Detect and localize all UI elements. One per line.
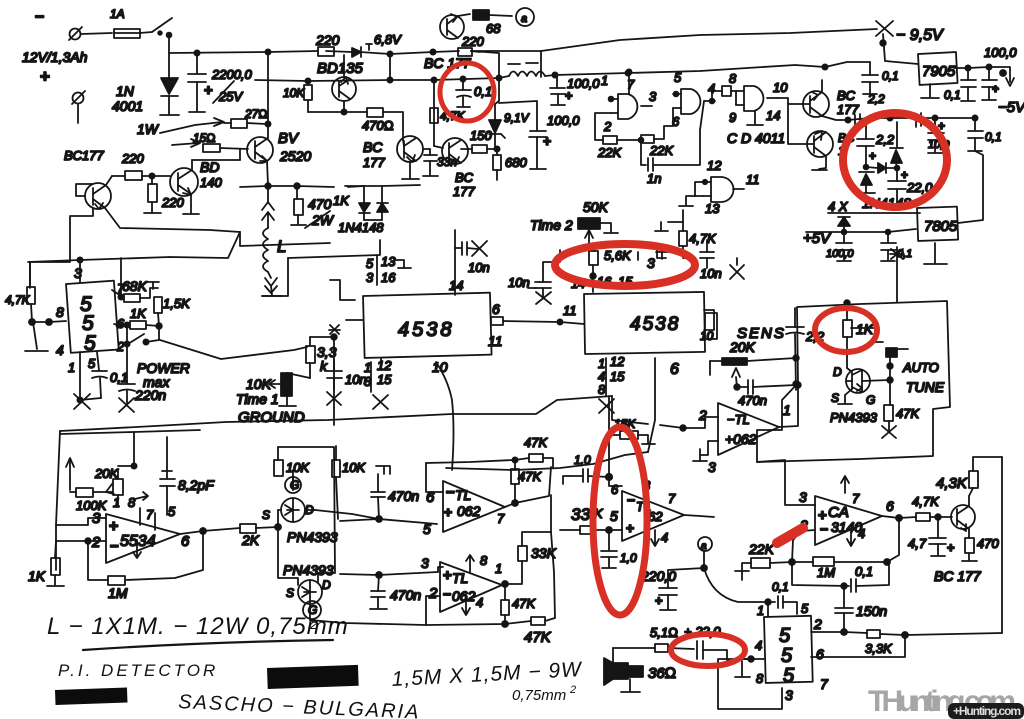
svg-text:PN4393: PN4393 — [287, 529, 338, 545]
svg-text:+: + — [992, 82, 999, 96]
svg-text:+: + — [109, 518, 118, 535]
resistor 27R — [224, 52, 271, 128]
nand gate U1d — [679, 158, 760, 216]
svg-text:4538: 4538 — [630, 314, 680, 335]
svg-text:1,0: 1,0 — [574, 453, 591, 467]
transistor BC177 mid1 — [363, 136, 423, 179]
svg-text:3: 3 — [649, 89, 657, 104]
svg-text:22K: 22K — [748, 541, 775, 557]
X mark -9,5V — [876, 21, 944, 64]
svg-text:47K: 47K — [524, 629, 552, 646]
svg-text:1: 1 — [757, 603, 764, 618]
svg-text:1M: 1M — [108, 585, 128, 601]
IC 555 #2 — [755, 601, 829, 703]
svg-text:4: 4 — [476, 595, 483, 610]
svg-text:5: 5 — [423, 521, 431, 537]
svg-text:5: 5 — [366, 256, 374, 271]
svg-text:BC: BC — [455, 170, 474, 185]
resistor 150 — [461, 128, 500, 153]
wire 5534 out — [180, 528, 240, 534]
svg-text:−: − — [627, 492, 635, 508]
svg-text:6: 6 — [492, 301, 500, 317]
svg-text:−: − — [35, 9, 44, 26]
svg-text:100,0: 100,0 — [547, 113, 580, 128]
svg-text:BC: BC — [837, 88, 856, 103]
transistor BC177 right2 — [788, 104, 855, 170]
svg-text:Time 2: Time 2 — [530, 217, 573, 233]
wire pin6 to pin11 — [503, 303, 584, 325]
svg-text:10: 10 — [700, 329, 714, 343]
battery label 12V/1,3Ah — [22, 49, 88, 86]
svg-text:680: 680 — [505, 155, 527, 170]
resistor 680 — [493, 149, 527, 180]
capacitor 10n mid — [508, 250, 560, 304]
resistor 1M b — [792, 557, 890, 580]
svg-text:BV: BV — [278, 130, 300, 147]
svg-text:3: 3 — [647, 255, 655, 271]
svg-text:68K: 68K — [122, 278, 148, 294]
svg-text:13: 13 — [381, 254, 396, 269]
wire node row y120 — [848, 115, 978, 120]
resistor 1,5K — [121, 258, 191, 329]
svg-text:12V/1,3Ah: 12V/1,3Ah — [22, 49, 88, 65]
svg-text:−: − — [820, 521, 828, 537]
svg-text:100,0: 100,0 — [826, 248, 854, 260]
red annotation D: ellipse around 1K — [815, 308, 877, 352]
svg-text:1: 1 — [601, 73, 608, 88]
svg-text:1: 1 — [783, 402, 791, 418]
resistor 22K b — [735, 541, 792, 580]
resistor 15K top — [609, 396, 655, 477]
red annotation F: ellipse around 22,0 — [671, 634, 745, 666]
svg-text:2: 2 — [116, 339, 125, 354]
wire row to pin5 — [340, 519, 437, 537]
potentiometer 20K sens — [710, 358, 796, 390]
svg-text:0,1: 0,1 — [882, 69, 899, 83]
svg-text:D: D — [833, 365, 842, 379]
resistor 470R — [362, 108, 403, 140]
svg-text:470: 470 — [308, 196, 332, 212]
svg-text:TL: TL — [452, 570, 468, 586]
svg-text:3: 3 — [708, 459, 716, 475]
bracket 3 gnd in red ellipse — [638, 250, 669, 271]
svg-text:2W: 2W — [311, 212, 335, 228]
fuse 1A — [110, 7, 152, 38]
svg-text:5: 5 — [610, 508, 618, 524]
resistor 68 — [473, 10, 512, 36]
svg-text:PN4393: PN4393 — [830, 410, 878, 425]
wire 555 to mid — [160, 340, 307, 359]
svg-text:Time 1: Time 1 — [236, 391, 279, 407]
capacitor 100,0 first — [550, 76, 600, 105]
resistor 33K input — [560, 505, 622, 534]
svg-text:BC177: BC177 — [64, 148, 105, 163]
svg-text:5: 5 — [779, 625, 791, 647]
long wire mid A — [60, 396, 612, 431]
resistor 1K mid — [114, 306, 159, 329]
svg-text:36Ω: 36Ω — [648, 665, 676, 682]
svg-text:2520: 2520 — [279, 148, 311, 164]
switch — [152, 18, 172, 37]
svg-text:50K: 50K — [583, 199, 609, 215]
svg-text:− 9,5V: − 9,5V — [896, 27, 944, 44]
svg-text:AUTO: AUTO — [902, 360, 939, 375]
svg-text:+5V: +5V — [803, 230, 832, 247]
speaker 36R — [604, 648, 676, 692]
wire a2 to 555 — [704, 568, 771, 605]
svg-text:220: 220 — [121, 151, 144, 166]
svg-text:4,7K: 4,7K — [689, 231, 717, 246]
resistor 220 vertical — [144, 176, 184, 213]
svg-text:0,1: 0,1 — [985, 130, 1002, 144]
svg-text:4 X: 4 X — [828, 199, 849, 214]
op-amp TL62 — [609, 477, 714, 546]
battery plus terminal — [72, 91, 85, 123]
transistor BD135 — [317, 55, 364, 112]
svg-text:470: 470 — [977, 536, 999, 551]
svg-text:2,2: 2,2 — [875, 132, 895, 147]
wire output 6 — [882, 515, 916, 562]
svg-text:1,5K: 1,5K — [163, 296, 191, 311]
svg-text:−: − — [446, 484, 455, 501]
svg-text:68: 68 — [486, 21, 501, 36]
svg-text:4538: 4538 — [398, 319, 455, 341]
svg-text:6: 6 — [181, 533, 190, 550]
svg-text:10K: 10K — [342, 460, 366, 475]
svg-text:2200,0: 2200,0 — [211, 67, 253, 82]
svg-text:062: 062 — [457, 503, 481, 519]
transistor PN4393 b — [278, 527, 426, 625]
IC 4538 #1 — [363, 248, 503, 409]
svg-text:S: S — [262, 508, 270, 522]
svg-text:100,0: 100,0 — [567, 76, 600, 91]
resistor 22K b — [641, 108, 674, 158]
wire pn4393 row — [315, 510, 379, 519]
wire top long to -9,5V — [471, 29, 877, 77]
resistor 220 (BC177 top) — [424, 34, 484, 71]
diode 6,8V zener — [352, 32, 402, 57]
svg-text:470n: 470n — [738, 393, 767, 408]
capacitor 2,2 sens — [786, 308, 825, 390]
wire 4538-1 left pins — [330, 280, 363, 320]
op-amp TL062 #2 — [426, 553, 508, 625]
svg-text:+: + — [443, 567, 452, 584]
svg-text:4: 4 — [661, 530, 668, 545]
svg-text:0,1: 0,1 — [474, 84, 492, 99]
svg-text:10K: 10K — [246, 376, 272, 392]
star node — [844, 247, 904, 306]
wire pin3 — [757, 460, 815, 505]
svg-text:7805: 7805 — [924, 218, 958, 235]
red annotation B: big circle top right — [843, 113, 947, 207]
resistor 2K — [240, 524, 281, 548]
label 2,2 top — [867, 92, 885, 106]
red annotation E: tall ellipse — [593, 427, 647, 615]
svg-text:11: 11 — [563, 303, 577, 318]
svg-text:15: 15 — [610, 369, 625, 384]
svg-text:16: 16 — [381, 270, 396, 285]
svg-text:−TL: −TL — [727, 412, 750, 427]
diode zener 9,1V — [489, 101, 530, 150]
op-amp 5534 — [91, 492, 190, 563]
svg-text:47K: 47K — [512, 596, 536, 611]
svg-text:47K: 47K — [518, 469, 542, 484]
svg-text:11: 11 — [746, 172, 760, 187]
svg-text:33: 33 — [571, 505, 590, 524]
wire bus y72 gates top — [626, 64, 827, 74]
svg-text:TUNE: TUNE — [906, 379, 945, 395]
svg-text:6: 6 — [611, 482, 619, 497]
svg-text:47K: 47K — [896, 406, 920, 421]
capacitor 100,0 out b — [982, 45, 1024, 116]
svg-text:5: 5 — [801, 601, 809, 616]
transistor BC177 right1 — [778, 80, 859, 117]
capacitor 22,0 in red circle — [888, 168, 933, 204]
resistor 10K wireA — [332, 446, 366, 519]
svg-text:10K: 10K — [283, 86, 305, 100]
wire bottom row + resistor 47K c — [426, 532, 555, 646]
svg-text:8: 8 — [128, 495, 136, 510]
svg-text:10K: 10K — [286, 460, 310, 475]
op-amp TL062 #1 — [426, 460, 551, 532]
capacitor 1n — [641, 101, 704, 186]
svg-text:14: 14 — [766, 108, 780, 123]
svg-text:BC 177: BC 177 — [934, 568, 982, 584]
resistor 4,7K vertical — [430, 108, 466, 123]
svg-text:TL: TL — [455, 487, 471, 503]
svg-text:7905: 7905 — [922, 63, 956, 80]
svg-text:1M: 1M — [817, 565, 835, 580]
svg-text:8: 8 — [756, 671, 764, 686]
indicator lamp a — [516, 8, 534, 26]
svg-text:+: + — [204, 82, 213, 99]
label 1W with arrows — [137, 118, 224, 147]
transistor BC177 out — [934, 496, 982, 584]
label SENS — [729, 325, 786, 355]
switch auto tune — [851, 328, 945, 405]
wire pin10 sweep — [436, 362, 454, 470]
svg-text:0,1: 0,1 — [772, 580, 789, 594]
svg-text:4: 4 — [755, 638, 762, 653]
svg-text:10n: 10n — [345, 372, 367, 387]
svg-text:+: + — [444, 504, 452, 520]
resistor 1M feedback — [88, 532, 203, 601]
svg-text:6: 6 — [816, 646, 824, 662]
svg-text:2: 2 — [603, 119, 612, 134]
svg-text:L − 1X1M. − 12W 0,75mm: L − 1X1M. − 12W 0,75mm — [47, 613, 349, 640]
svg-text:5: 5 — [783, 665, 795, 687]
capacitor 4,7 — [908, 517, 955, 556]
wire pin6 row — [811, 635, 905, 657]
wire BC177 collector to left frame — [30, 184, 93, 288]
transistor BV2520 — [247, 124, 311, 185]
node bus y185 left — [105, 208, 330, 246]
svg-text:25V: 25V — [218, 89, 243, 104]
svg-text:9: 9 — [729, 110, 736, 125]
svg-text:13: 13 — [705, 201, 720, 216]
capacitor 10n top — [455, 230, 490, 275]
svg-text:5: 5 — [168, 504, 176, 519]
svg-text:5: 5 — [84, 332, 96, 355]
svg-text:4001: 4001 — [112, 98, 143, 114]
coil L — [262, 183, 300, 296]
capacitor 10n right — [700, 240, 744, 281]
svg-text:BC: BC — [363, 139, 383, 155]
wire 5534 inputs — [56, 518, 106, 544]
wire pin8 pin3 loop — [718, 659, 782, 709]
svg-text:L: L — [277, 237, 286, 256]
svg-text:177: 177 — [837, 102, 859, 117]
svg-text:4,3K: 4,3K — [936, 475, 968, 492]
svg-text:1n: 1n — [647, 171, 661, 186]
svg-text:1N: 1N — [116, 83, 135, 99]
svg-text:150n: 150n — [856, 603, 887, 619]
capacitor 0,1 (red circled) — [456, 76, 492, 107]
resistor 47K b — [501, 584, 536, 627]
resistor 4,7K out — [912, 494, 952, 521]
wire pin2 — [789, 530, 815, 565]
svg-text:5: 5 — [674, 70, 682, 85]
resistor 470 out — [962, 536, 999, 561]
capacitor 0,1 right — [968, 118, 1002, 151]
inductor choke — [499, 63, 825, 78]
resistor 1K (red circled) — [843, 303, 874, 368]
svg-text:10n: 10n — [700, 266, 722, 281]
potentiometer 10K Time1 — [236, 373, 305, 426]
svg-text:470n: 470n — [388, 488, 419, 504]
capacitor 0,1 pin1 — [768, 580, 797, 617]
svg-text:1K: 1K — [28, 568, 46, 584]
capacitor 220n — [119, 344, 166, 412]
svg-text:220: 220 — [161, 195, 184, 210]
switch POWER max — [124, 325, 189, 390]
red annotation C: ellipse around 5,6K — [555, 244, 695, 286]
svg-text:S: S — [286, 586, 294, 600]
capacitor 0,1 fb — [792, 562, 889, 592]
svg-text:+: + — [626, 520, 634, 536]
resistor 1K bottom left — [28, 541, 64, 586]
svg-text:G: G — [866, 393, 875, 407]
resistor 15R — [193, 131, 248, 152]
svg-text:1,0: 1,0 — [620, 551, 637, 565]
capacitor 470n #1 — [371, 466, 419, 522]
regulator 7805 — [888, 151, 983, 264]
battery minus terminal — [35, 9, 112, 40]
svg-text:33K: 33K — [531, 545, 557, 561]
wire y186 row — [240, 185, 420, 187]
svg-text:062: 062 — [452, 588, 476, 604]
svg-text:220: 220 — [461, 34, 484, 49]
svg-text:470n: 470n — [390, 587, 421, 603]
transistor BC177 left — [64, 148, 111, 209]
svg-text:12: 12 — [707, 158, 722, 173]
svg-text:BD135: BD135 — [317, 60, 364, 77]
long wire mid B — [446, 452, 648, 470]
wire emitter row y112 — [308, 109, 367, 114]
capacitor 2,2 in red circle — [855, 113, 921, 166]
svg-text:D: D — [322, 578, 331, 592]
wire base bus y80 — [255, 51, 502, 101]
svg-text:P.I. DETECTOR: P.I. DETECTOR — [58, 661, 218, 680]
svg-text:6: 6 — [670, 361, 679, 378]
svg-text:2K: 2K — [241, 532, 260, 548]
svg-text:7: 7 — [852, 491, 860, 506]
capacitor 100,0 second — [499, 101, 580, 169]
regulator 7905 — [918, 52, 968, 102]
black redaction bar left — [55, 687, 127, 705]
resistor 100K — [70, 488, 118, 513]
svg-text:177: 177 — [453, 184, 475, 199]
capacitor 33n — [423, 149, 457, 176]
svg-text:GROUND: GROUND — [238, 409, 305, 426]
svg-text:10: 10 — [773, 80, 788, 95]
capacitor 0,1 +5V — [881, 232, 912, 261]
svg-text:220n: 220n — [134, 387, 166, 403]
resistor 10K vertical — [283, 78, 312, 112]
nand gate U1a — [601, 72, 657, 134]
transistor PN4393 a — [262, 470, 338, 545]
svg-text:6,8V: 6,8V — [374, 32, 402, 47]
svg-text:8: 8 — [56, 304, 64, 320]
svg-text:15: 15 — [377, 372, 392, 387]
svg-text:10n: 10n — [468, 260, 490, 275]
svg-text:2,2: 2,2 — [867, 92, 885, 106]
svg-text:+Hunting.com: +Hunting.com — [953, 704, 1021, 718]
svg-text:+: + — [947, 540, 955, 555]
capacitor 8,2pF — [160, 470, 215, 515]
svg-text:22K: 22K — [597, 145, 622, 160]
wire top bus — [169, 35, 480, 57]
capacitor 0,1 pin5 — [74, 352, 128, 409]
op-amp CA3140 — [799, 476, 894, 546]
transistor PN4393 jfet — [830, 365, 893, 425]
nand gate U1c — [712, 71, 788, 125]
svg-text:2: 2 — [309, 616, 318, 632]
nand gate U1b — [672, 70, 715, 129]
svg-text:G: G — [290, 478, 299, 492]
label 4X 1N4148 — [828, 195, 920, 214]
svg-text:47K: 47K — [524, 435, 548, 450]
svg-text:5,6K: 5,6K — [604, 248, 632, 263]
potentiometer 50K Time2 — [530, 199, 618, 245]
wire row to pin3 — [340, 555, 443, 575]
label CD4011 — [727, 130, 785, 146]
svg-text:1K: 1K — [130, 306, 147, 321]
svg-text:20K: 20K — [729, 339, 756, 355]
svg-text:+: + — [40, 67, 50, 86]
transistor BC177 mid2 — [434, 80, 475, 199]
indicator a2 — [698, 537, 712, 571]
svg-text:6: 6 — [886, 498, 894, 514]
svg-text:+062: +062 — [725, 431, 757, 447]
svg-text:12: 12 — [610, 354, 625, 369]
svg-text:4,7: 4,7 — [908, 536, 927, 551]
capacitor 10n bottom — [327, 360, 367, 405]
capacitor 470n sens — [737, 380, 796, 408]
wire right edge — [1001, 457, 1003, 633]
svg-text:C D 4011: C D 4011 — [727, 130, 785, 146]
black redaction bar right — [267, 665, 359, 689]
svg-text:15Ω: 15Ω — [193, 131, 216, 145]
capacitor 1,0 vert — [601, 530, 637, 568]
capacitor 0,1 gates — [825, 62, 899, 94]
svg-text:470Ω: 470Ω — [362, 118, 394, 133]
svg-text:−: − — [443, 586, 451, 602]
capacitor 470n #2 — [370, 572, 421, 609]
svg-text:7: 7 — [820, 676, 829, 692]
potentiometer 20K — [66, 458, 137, 495]
svg-text:0,1: 0,1 — [855, 564, 873, 579]
